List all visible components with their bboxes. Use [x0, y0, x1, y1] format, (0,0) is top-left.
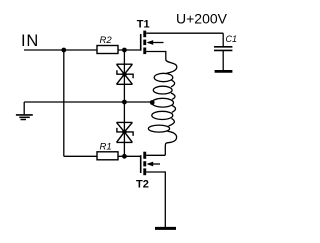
junction node at IN branch [61, 48, 66, 53]
ground symbol (earth) [16, 102, 33, 120]
junction node center tap at coil [150, 100, 155, 105]
junction node R1 / T2 gate / zener chain [122, 154, 127, 159]
wire loop connector 2-3 [171, 93, 175, 99]
wire zener chain vertical [123, 50, 125, 156]
junction node R2 / T1 gate / zener chain [122, 48, 127, 53]
capacitor C1 [214, 33, 232, 71]
wire vertical from IN branch down to R1 [63, 50, 65, 156]
wire R1 right to T2 gate junction [118, 155, 141, 157]
wire loop connector 1-2 [171, 80, 175, 87]
svg-text:U+200V: U+200V [176, 11, 228, 27]
svg-text:R2: R2 [100, 35, 113, 46]
inductor L1 winding (5 loops) [148, 73, 175, 132]
svg-text:IN: IN [21, 32, 39, 50]
wire T2 source down to ground [146, 172, 165, 228]
wire T1 drain to +200V rail [146, 32, 223, 34]
wire T1 source to coil top [146, 52, 166, 60]
bidirectional zener D2 (lower) [117, 122, 134, 142]
transistor T2 (MOSFET) [141, 152, 160, 176]
wire IN horizontal to R2 [24, 49, 97, 51]
ground bar below T2 [155, 227, 176, 230]
wire horizontal to R1 [64, 155, 97, 157]
resistor R2 [97, 46, 118, 54]
resistor R1 [97, 152, 118, 160]
wire coil bottom to T2 drain [165, 131, 176, 155]
wire loop connector 4-5 [169, 118, 175, 126]
bidirectional zener D1 (upper) [117, 64, 134, 84]
svg-text:C1: C1 [226, 34, 238, 44]
transistor T1 (MOSFET) [141, 31, 164, 54]
svg-text:T1: T1 [137, 19, 150, 31]
svg-text:T2: T2 [136, 179, 149, 191]
wire loop connector 3-4 [172, 106, 176, 113]
svg-text:R1: R1 [100, 141, 112, 152]
wire R2 right to T1 gate junction [118, 49, 141, 51]
wire ground line to coil center tap [24, 101, 152, 103]
junction node ground line / zener chain midpoint [122, 100, 127, 105]
